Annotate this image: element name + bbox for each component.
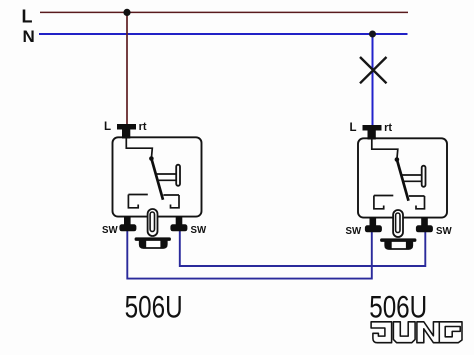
svg-text:506U: 506U: [125, 290, 183, 325]
S1 clamp right: [171, 195, 180, 208]
svg-text:L: L: [104, 121, 111, 133]
switch S1 box: [113, 137, 202, 216]
svg-text:L: L: [22, 6, 33, 26]
S1 bottom terminal right: [176, 216, 183, 225]
wire SW link B (S1 right to S2 right): [180, 229, 425, 266]
svg-text:rt: rt: [384, 122, 392, 134]
S1 top terminal: [117, 124, 136, 139]
S2 clamp right: [416, 196, 425, 209]
S2 claw base: [380, 238, 416, 242]
S2 plunger: [393, 210, 403, 237]
S2 toggle links: [401, 175, 422, 181]
wire N bus: [39, 33, 408, 35]
S2 toggle bar: [422, 166, 426, 187]
S1 toggle bar: [176, 165, 180, 186]
lamp E1 (X symbol): [360, 57, 387, 83]
S2 lever: [397, 160, 409, 201]
S1 toggle links: [156, 174, 177, 180]
junction on N bus: [369, 31, 376, 38]
junction on L bus: [123, 9, 130, 16]
S2 contact rail: [374, 195, 425, 198]
wire SW link A (S1 left to S2 left): [127, 229, 371, 279]
switch S2 box: [358, 138, 447, 217]
svg-text:SW: SW: [102, 225, 118, 236]
svg-text:N: N: [23, 27, 35, 46]
S2 pivot: [395, 157, 400, 162]
S2 internal feed wire: [372, 139, 398, 160]
wire L bus: [40, 11, 408, 13]
JUNG logo letter J: [371, 322, 392, 343]
JUNG logo letter U: [393, 322, 415, 343]
svg-text:SW: SW: [346, 226, 362, 237]
S1 bottom terminal left: [124, 216, 131, 225]
S1 plunger: [148, 209, 158, 236]
JUNG logo letter N: [417, 322, 440, 343]
S1 pivot: [149, 156, 154, 161]
svg-text:SW: SW: [436, 226, 452, 237]
svg-text:L: L: [350, 122, 357, 134]
S1 lever: [151, 159, 163, 200]
S2 bottom terminal left: [370, 217, 377, 226]
wire L drop to S1: [126, 12, 128, 125]
svg-text:SW: SW: [191, 225, 207, 236]
JUNG logo letter G: [439, 322, 462, 343]
svg-text:rt: rt: [139, 121, 147, 133]
S1 internal feed wire: [126, 138, 152, 159]
S2 top terminal: [363, 125, 382, 140]
S1 contact rail: [128, 194, 179, 197]
wire N drop to lamp and S2: [372, 34, 374, 127]
S1 clamp left: [128, 195, 138, 208]
svg-text:506U: 506U: [369, 290, 427, 325]
S2 bottom terminal right: [421, 217, 428, 226]
S1 claw base: [135, 237, 171, 241]
S2 clamp left: [374, 196, 384, 209]
